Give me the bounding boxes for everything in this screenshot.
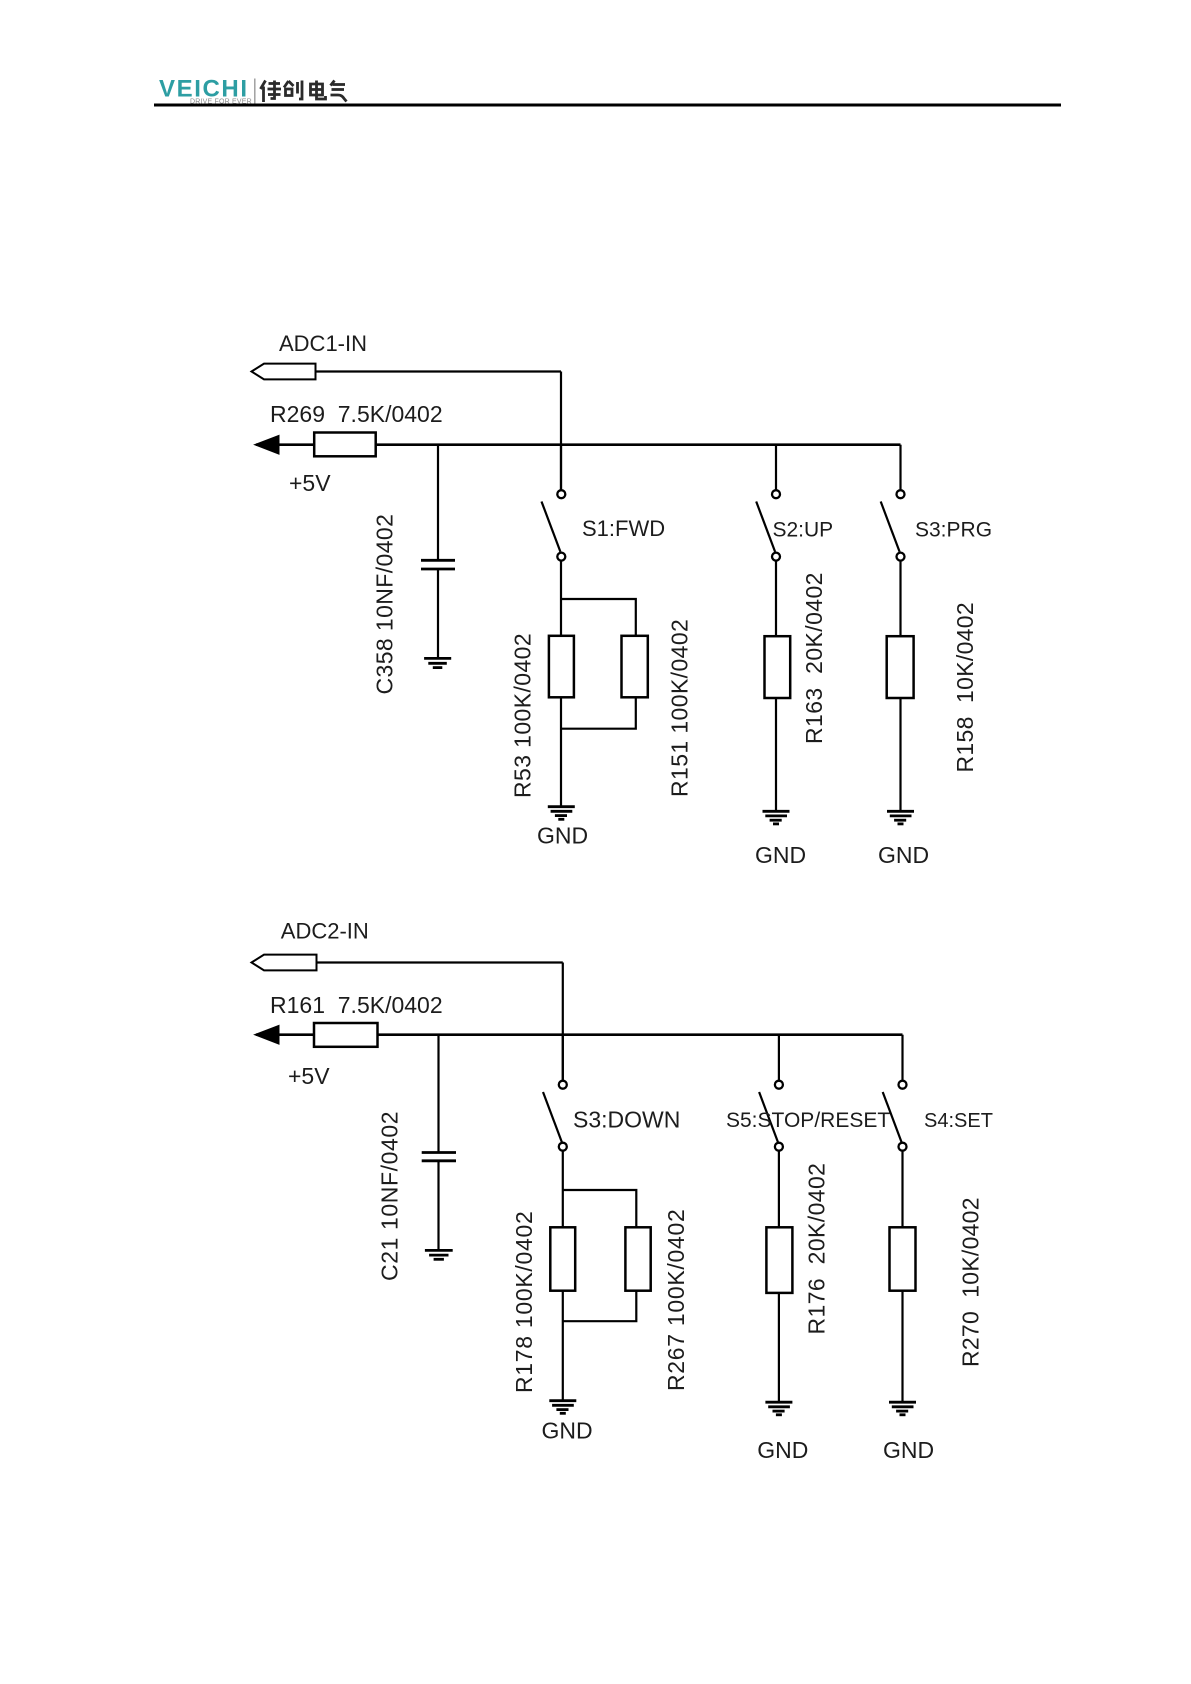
- svg-text:S3:DOWN: S3:DOWN: [573, 1107, 680, 1133]
- ground for R178/R267: [549, 1401, 576, 1414]
- ground for C358: [424, 658, 451, 667]
- resistor R161 body: [314, 1023, 378, 1047]
- svg-text:R270 10K/0402: R270 10K/0402: [957, 1197, 983, 1367]
- svg-text:R178 100K/0402: R178 100K/0402: [511, 1211, 537, 1393]
- switch S3 top contact: [897, 490, 905, 498]
- switch S3D blade: [543, 1092, 562, 1142]
- svg-text:GND: GND: [755, 842, 806, 868]
- resistor R267 body: [625, 1227, 650, 1290]
- ground for R163: [763, 811, 790, 824]
- switch S3D top stub: [562, 1035, 564, 1081]
- svg-text:R176 20K/0402: R176 20K/0402: [803, 1163, 829, 1335]
- wire +5V rail: [256, 443, 901, 446]
- switch S2 top contact: [772, 490, 780, 498]
- switch S2 bottom contact: [772, 553, 780, 561]
- svg-text:GND: GND: [878, 842, 929, 868]
- svg-text:+5V: +5V: [288, 1063, 330, 1089]
- resistor R269 body: [314, 433, 376, 457]
- switch S2 top stub: [775, 445, 777, 490]
- switch S5 bottom contact: [775, 1143, 783, 1151]
- ground for R53/R151: [548, 807, 575, 820]
- svg-text:+5V: +5V: [289, 470, 331, 496]
- switch S3 top stub: [899, 445, 901, 490]
- switch S2 blade: [756, 502, 775, 552]
- svg-text:R163 20K/0402: R163 20K/0402: [801, 572, 827, 744]
- switch S5 blade: [759, 1092, 778, 1142]
- svg-text:S3:PRG: S3:PRG: [915, 519, 992, 542]
- svg-text:GND: GND: [757, 1437, 808, 1463]
- wire S3 to ground: [899, 561, 901, 811]
- svg-text:R53 100K/0402: R53 100K/0402: [509, 633, 535, 798]
- wire capacitor C358 bottom lead: [437, 569, 439, 658]
- switch S3D bottom contact: [559, 1143, 567, 1151]
- wire parallel branch top (2): [563, 1190, 637, 1228]
- ground for R176: [765, 1402, 792, 1415]
- svg-text:R269 7.5K/0402: R269 7.5K/0402: [270, 401, 443, 427]
- wire capacitor C21 top lead: [437, 1035, 439, 1152]
- svg-text:S1:FWD: S1:FWD: [582, 516, 665, 541]
- wire ADC1-IN horizontal: [316, 370, 562, 372]
- switch S3 blade: [881, 502, 900, 552]
- wire S3D to divider: [562, 1151, 564, 1400]
- wire ADC2-IN vertical drop to +5V rail: [562, 963, 564, 1081]
- power +5V arrow: [255, 435, 280, 454]
- resistor R151 body: [622, 636, 648, 698]
- svg-text:R161 7.5K/0402: R161 7.5K/0402: [270, 992, 443, 1018]
- resistor R163 body: [765, 636, 791, 698]
- ground for R158: [887, 811, 914, 824]
- ground for R270: [889, 1402, 916, 1415]
- wire S1 to divider: [560, 561, 562, 807]
- wire S5 to ground: [778, 1151, 780, 1402]
- svg-text:R151 100K/0402: R151 100K/0402: [666, 619, 692, 797]
- svg-text:R158 10K/0402: R158 10K/0402: [952, 602, 978, 772]
- switch S5 top contact: [775, 1081, 783, 1089]
- wire ADC2-IN horizontal: [317, 961, 563, 963]
- svg-text:R267 100K/0402: R267 100K/0402: [663, 1209, 689, 1391]
- wire capacitor C21 bottom lead: [437, 1161, 439, 1250]
- resistor R176 body: [766, 1227, 792, 1293]
- svg-text:C21 10NF/0402: C21 10NF/0402: [376, 1111, 402, 1281]
- net flag ADC2-IN: [252, 955, 317, 971]
- svg-text:S4:SET: S4:SET: [924, 1110, 993, 1132]
- switch S1 blade: [542, 502, 561, 552]
- resistor R178 body: [550, 1227, 575, 1290]
- svg-text:GND: GND: [537, 822, 588, 848]
- switch S1 bottom contact: [557, 553, 565, 561]
- capacitor C21 plates: [422, 1153, 456, 1161]
- capacitor C358 plates: [421, 560, 455, 569]
- wire capacitor C358 top lead: [437, 445, 439, 560]
- net flag ADC1-IN: [252, 364, 316, 380]
- wire +5V rail (2): [256, 1033, 903, 1036]
- svg-text:GND: GND: [542, 1417, 593, 1443]
- switch S5 top stub: [778, 1035, 780, 1081]
- header rule: [154, 104, 1061, 107]
- switch S4 top stub: [901, 1035, 903, 1081]
- svg-text:GND: GND: [883, 1437, 934, 1463]
- switch S4 top contact: [899, 1081, 907, 1089]
- wire parallel branch top: [561, 599, 636, 637]
- resistor R158 body: [887, 636, 914, 698]
- logo Chinese text 伟创电气: [261, 81, 347, 103]
- switch S3 bottom contact: [897, 553, 905, 561]
- power +5V arrow (2): [255, 1025, 280, 1044]
- switch S4 bottom contact: [899, 1143, 907, 1151]
- ground for C21: [425, 1250, 453, 1259]
- svg-text:ADC2-IN: ADC2-IN: [281, 919, 369, 944]
- logo separator bar: [254, 79, 256, 105]
- wire parallel branch bottom (2): [563, 1290, 637, 1321]
- svg-text:ADC1-IN: ADC1-IN: [279, 331, 367, 356]
- resistor R270 body: [890, 1227, 916, 1290]
- wire S2 to ground: [775, 561, 777, 811]
- switch S3D top contact: [559, 1081, 567, 1089]
- resistor R53 body: [549, 636, 574, 698]
- switch S4 blade: [883, 1092, 902, 1142]
- svg-text:S2:UP: S2:UP: [773, 519, 834, 542]
- switch S1 top contact: [557, 490, 565, 498]
- wire S4 to ground: [901, 1151, 903, 1402]
- svg-text:S5:STOP/RESET: S5:STOP/RESET: [726, 1109, 890, 1132]
- svg-text:C358 10NF/0402: C358 10NF/0402: [372, 514, 398, 695]
- wire parallel branch bottom: [561, 697, 636, 729]
- wire ADC1-IN vertical drop to +5V rail: [560, 372, 562, 491]
- switch S1 top stub: [560, 445, 562, 490]
